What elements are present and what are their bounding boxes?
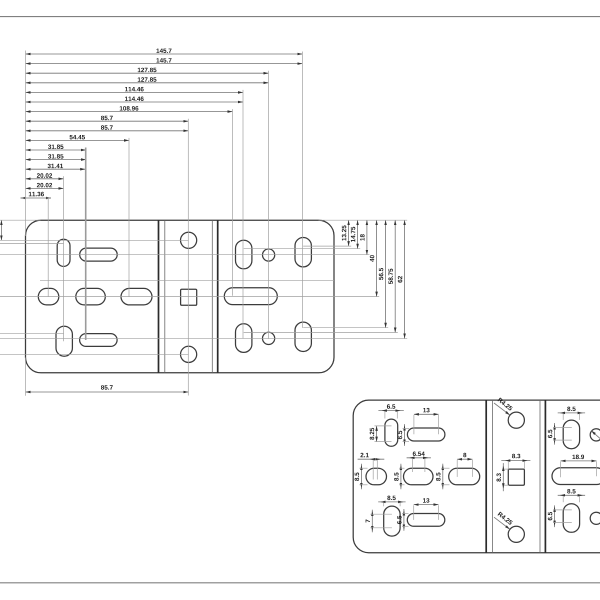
detail dim 13 (top horizontal slot) (414, 413, 439, 415)
dimension 20.02 (row 15) (26, 187, 64, 189)
dimension 20.02 (row 14) (26, 178, 64, 180)
extension lines to right dimensions (319, 219, 408, 221)
dimension 56.5 (385, 220, 387, 328)
dimension 108.96 (row 7) (26, 111, 233, 113)
detail dim 8.5 (mid-left slot) (360, 464, 362, 490)
detail flat-pattern view (353, 400, 600, 553)
detail dim 7 (371, 510, 373, 533)
detail radius leader R4.25 top (494, 403, 510, 415)
detail dim 18.9 (561, 460, 597, 462)
dimension 127.85 (row 3) (26, 72, 269, 74)
dimension 85.7 (row 9) (26, 130, 189, 132)
main flat-pattern view (26, 220, 335, 373)
dimension 54.45 (row 10) (26, 139, 130, 141)
detail dim 6.5 (top horizontal slot height) (404, 424, 406, 446)
dimension 40 (376, 220, 378, 296)
detail dim 13 (bottom horizontal slot) (414, 504, 439, 506)
extension lines to left edge (0, 219, 41, 221)
dimension 85.7 (row 8) (26, 120, 189, 122)
dimension 145.7 (row 1) (26, 53, 303, 55)
detail dim 6.5 (right top slot, rotated) (554, 423, 556, 445)
detail dim 8.5 (right top slot) (558, 412, 585, 414)
merged extension lines x=85.2/86.0 (85, 148, 87, 341)
detail dim 8.3 (square height) (502, 463, 504, 491)
leader through right top circle (591, 431, 600, 442)
dimension 31.85 (row 12) (26, 159, 87, 161)
dimension 11.36 (row 16) (21, 197, 26, 199)
detail dim 6.54 (407, 457, 431, 459)
detail dim 8.3 (square width) (501, 460, 530, 462)
dimension 13.25 (348, 220, 350, 246)
detail dim 6.5 (bottom horizontal slot height) (403, 509, 405, 531)
bottom border line (0, 582, 600, 584)
left cut-off vertical dimension (0, 220, 2, 240)
detail radius leader R4.25 bottom (494, 517, 510, 529)
detail dim 8.5 (right bottom slot) (558, 494, 585, 496)
dimension 114.46 (row 6) (26, 101, 244, 103)
bottom dimension 85.7 (26, 391, 189, 393)
dimension 62 (404, 220, 406, 338)
dimension 145.7 (row 2) (26, 63, 303, 65)
dimension 14.75 (357, 220, 359, 249)
detail dim 6.5 (right bottom slot, rotated) (554, 505, 556, 527)
detail dim 8 (457, 458, 472, 460)
detail dim 2.1 (358, 458, 385, 460)
dimension 31.41 (row 13) (26, 168, 86, 170)
detail dim 6.5 (top-left slot width) (378, 410, 403, 412)
dimension 58.75 (394, 220, 396, 332)
detail dim 8.25 (376, 426, 378, 442)
dimension 114.46 (row 5) (26, 91, 244, 93)
dimension 127.85 (row 4) (26, 82, 269, 84)
dimension 18 (366, 220, 368, 255)
detail dim 8.5 (bottom-left slot width) (378, 501, 405, 503)
detail dim 8.5 (mid-right slot) (442, 464, 444, 490)
extension lines from top dimensions (25, 51, 27, 237)
detail dim 8.5 (mid-center slot) (400, 464, 402, 490)
dimension 31.85 (row 11) (26, 149, 87, 151)
top border line (0, 16, 600, 18)
